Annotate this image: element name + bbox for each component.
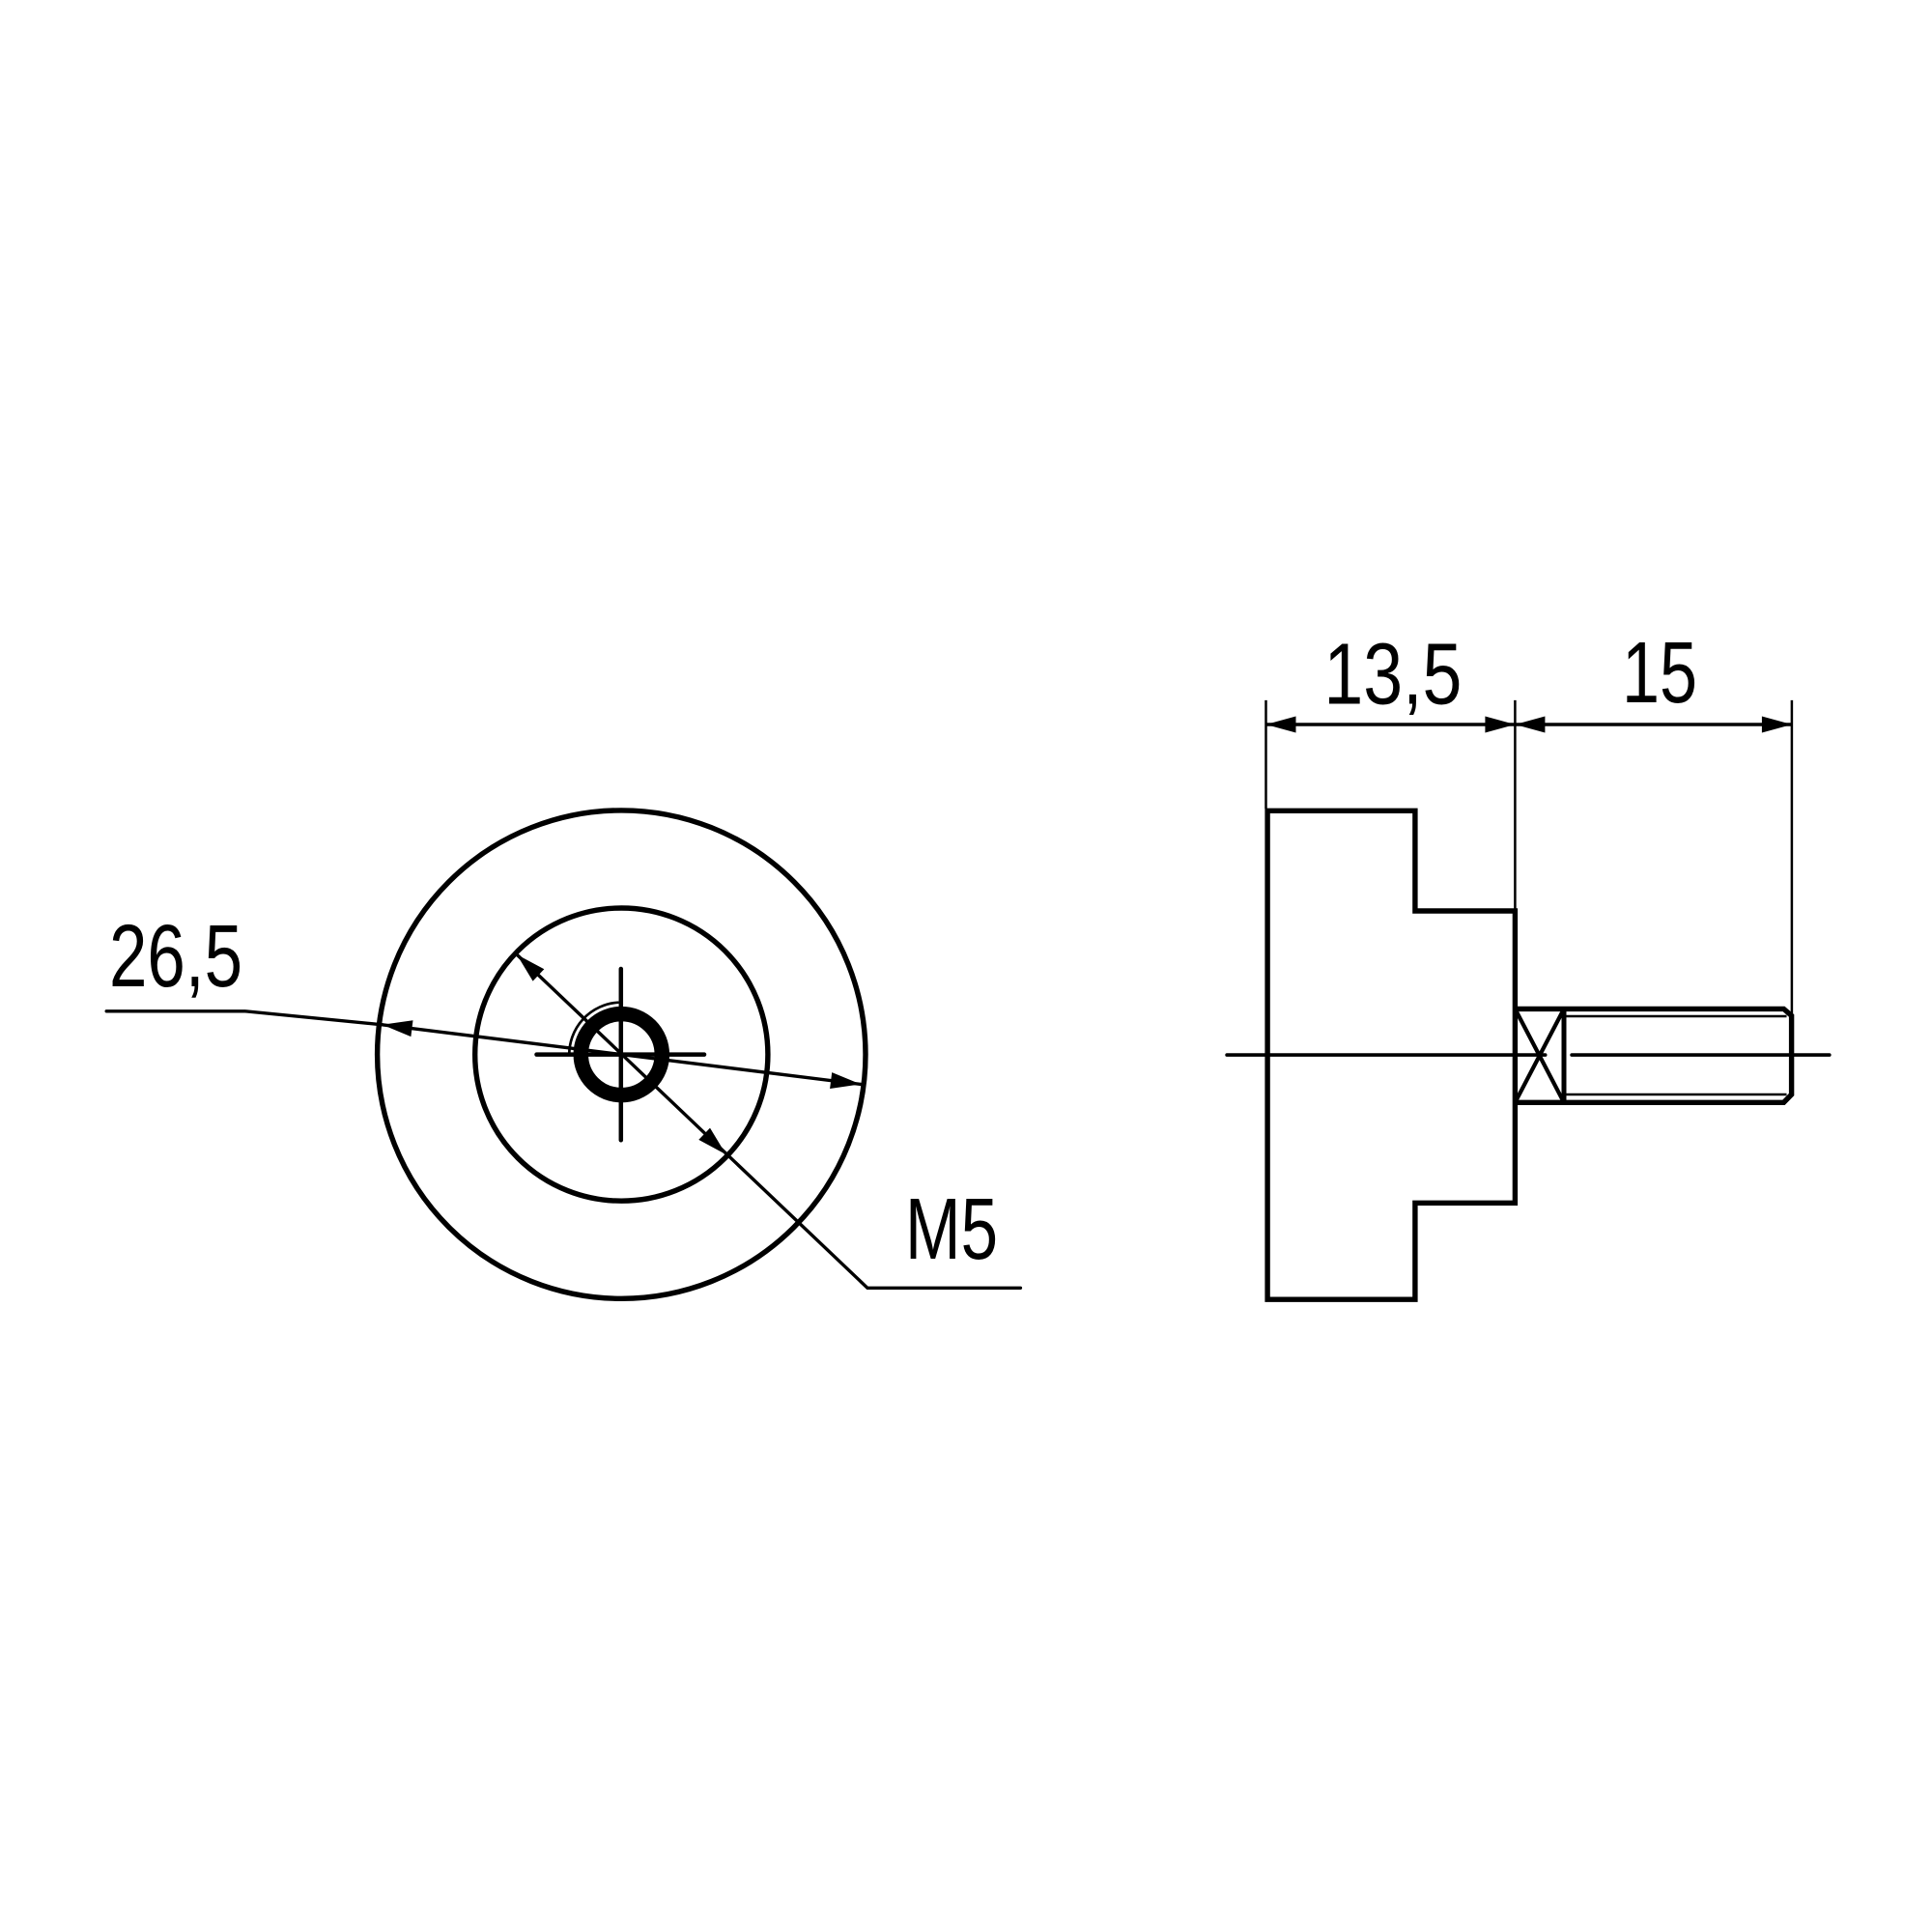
stud major outline top with end chamfer xyxy=(1515,1009,1791,1102)
inner circle (boss) xyxy=(475,908,768,1201)
body outline (stepped knob profile) xyxy=(1267,810,1515,1299)
stud minor diameter bottom thin line xyxy=(1567,1094,1787,1096)
dimension line 13,5 xyxy=(1266,723,1516,725)
X diagonal 2 xyxy=(1515,1009,1564,1102)
extension line middle xyxy=(1514,700,1517,909)
arrowhead left of 13,5 xyxy=(1266,717,1296,733)
svg-text:26,5: 26,5 xyxy=(109,907,242,1006)
dimension line 15 xyxy=(1515,723,1792,725)
dimension line 26,5 (diameter through center) xyxy=(383,1025,861,1085)
centerline right segment xyxy=(1572,1053,1830,1057)
arrowhead right of 13,5 xyxy=(1485,717,1515,733)
outer circle (knob OD 26,5) xyxy=(378,810,866,1298)
stud minor diameter top thin line xyxy=(1567,1015,1787,1018)
svg-text:13,5: 13,5 xyxy=(1323,627,1462,724)
thread minor ring (tapped hole) xyxy=(581,1014,662,1095)
arrowhead right of 15 xyxy=(1762,717,1792,733)
arrowhead lower-right of M5 xyxy=(698,1128,725,1155)
dimension line M5 (diameter of boss circle, 45deg) xyxy=(517,954,1020,1288)
svg-text:15: 15 xyxy=(1622,625,1697,722)
arrowhead left of 15 xyxy=(1515,717,1545,733)
arrowhead left of 26,5 xyxy=(383,1020,413,1037)
X box right vertical xyxy=(1562,1009,1567,1102)
extension line left (13,5) xyxy=(1264,700,1267,809)
svg-text:M5: M5 xyxy=(905,1181,998,1278)
thread major arc (partial thin circle) xyxy=(569,1003,618,1057)
arrowhead upper-left of M5 xyxy=(517,954,544,981)
arrowhead right of 26,5 xyxy=(830,1072,861,1089)
leader tail of 26,5 xyxy=(106,1011,383,1025)
X diagonal 1 xyxy=(1515,1009,1564,1102)
center mark vertical xyxy=(619,969,624,1140)
center mark horizontal xyxy=(537,1052,705,1057)
extension line right (15) xyxy=(1791,700,1794,1017)
centerline left segment xyxy=(1227,1053,1546,1057)
